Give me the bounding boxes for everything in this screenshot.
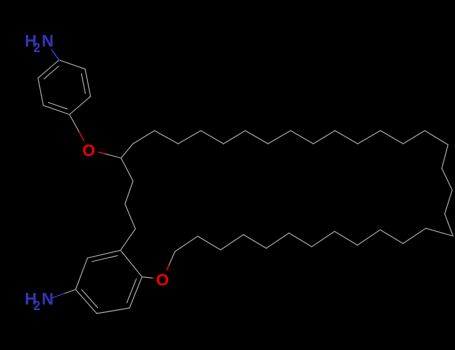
svg-text:N: N	[42, 290, 54, 309]
svg-text:O: O	[82, 141, 95, 160]
svg-text:2: 2	[33, 299, 40, 313]
svg-text:2: 2	[33, 41, 40, 55]
svg-text:N: N	[42, 32, 54, 51]
svg-text:O: O	[156, 271, 169, 290]
